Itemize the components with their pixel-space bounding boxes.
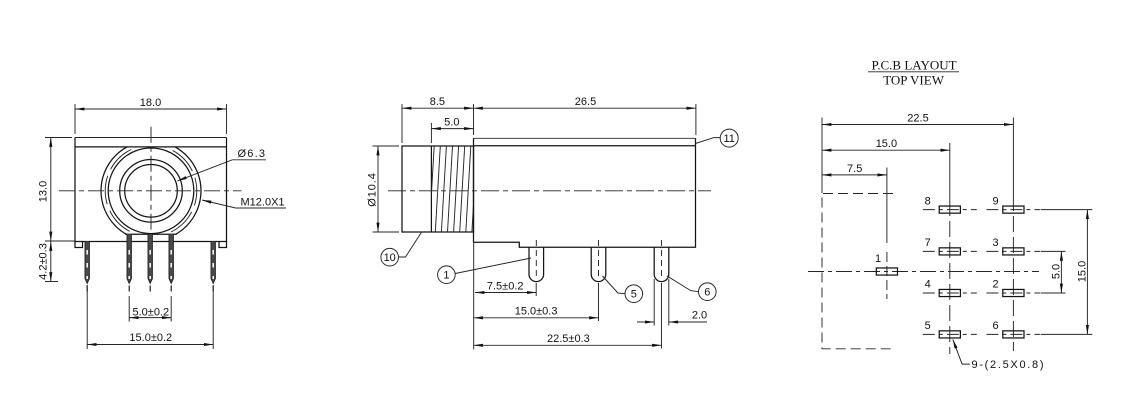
svg-text:8.5: 8.5 xyxy=(430,96,445,108)
dim 15.0±0.3 xyxy=(474,283,599,321)
centerline xyxy=(388,190,711,192)
pin F1 xyxy=(85,242,89,296)
main body xyxy=(474,137,696,139)
body top lip line xyxy=(75,146,227,148)
dim 4.2±0.3 xyxy=(37,242,58,282)
dim 18.0 xyxy=(75,97,227,134)
svg-text:26.5: 26.5 xyxy=(575,96,596,108)
svg-text:M12.0X1: M12.0X1 xyxy=(241,196,285,208)
svg-text:Ø6.3: Ø6.3 xyxy=(238,148,267,160)
body top lip line xyxy=(474,145,696,147)
label M12.0X1 xyxy=(202,196,286,208)
dim 13.0 xyxy=(37,138,75,242)
dashed body outline xyxy=(822,194,893,349)
dim 7.5 xyxy=(822,163,887,178)
pin S1 xyxy=(529,240,544,282)
svg-text:3: 3 xyxy=(993,237,999,249)
svg-text:11: 11 xyxy=(723,133,734,145)
hole circle (ø6.3) xyxy=(125,165,178,218)
balloon 1 xyxy=(438,258,531,284)
pin F4 xyxy=(169,234,173,295)
right foot xyxy=(219,242,227,248)
svg-text:2: 2 xyxy=(993,279,999,291)
pad 8 xyxy=(923,195,977,213)
thread dashed circle xyxy=(105,145,197,237)
svg-text:9-(2.5X0.8): 9-(2.5X0.8) xyxy=(972,359,1046,371)
horizontal centerline xyxy=(808,271,1039,273)
pad 5 xyxy=(923,320,977,338)
dim 22.5 xyxy=(822,113,1013,194)
svg-text:10: 10 xyxy=(384,252,396,264)
horizontal centerline xyxy=(59,190,242,192)
svg-text:7: 7 xyxy=(925,237,931,249)
svg-text:5: 5 xyxy=(925,320,931,332)
svg-text:6: 6 xyxy=(993,320,999,332)
pad 2 xyxy=(986,279,1040,297)
svg-text:13.0: 13.0 xyxy=(37,181,49,202)
left foot xyxy=(75,242,83,248)
bushing xyxy=(402,146,474,232)
dim 15.0 vertical xyxy=(1077,210,1089,335)
body outline xyxy=(75,137,227,139)
svg-text:5: 5 xyxy=(631,289,637,301)
dim 7.5±0.2 xyxy=(474,243,537,350)
pad 4 xyxy=(923,279,977,297)
label 9-(2.5X0.8) xyxy=(953,339,1045,371)
dim 26.5 xyxy=(474,96,696,135)
balloon 5 xyxy=(603,276,643,303)
dim 5.0 vertical xyxy=(1050,251,1062,293)
svg-text:5.0: 5.0 xyxy=(444,117,459,129)
pin S2 xyxy=(591,240,606,282)
pin F5 xyxy=(211,242,215,296)
svg-text:1: 1 xyxy=(875,253,881,265)
dim 22.5±0.3 xyxy=(474,283,662,349)
dim 15.0 xyxy=(822,138,950,150)
dim 2.0 xyxy=(637,279,707,326)
row extensions xyxy=(1041,209,1092,211)
svg-text:5.0: 5.0 xyxy=(1050,264,1062,279)
svg-text:4.2±0.3: 4.2±0.3 xyxy=(37,243,49,280)
svg-text:TOP VIEW: TOP VIEW xyxy=(883,73,945,88)
pin S3 xyxy=(654,240,669,282)
svg-text:4: 4 xyxy=(925,279,931,291)
pad 6 xyxy=(986,320,1040,338)
svg-text:7.5±0.2: 7.5±0.2 xyxy=(487,281,524,293)
svg-text:1: 1 xyxy=(443,270,449,282)
thread boundary line xyxy=(430,146,432,232)
circle r43 xyxy=(108,148,194,234)
svg-text:15.0: 15.0 xyxy=(1077,261,1089,282)
pad1 column line xyxy=(886,178,888,243)
dim 5.0±0.2 xyxy=(129,296,171,322)
dim 8.5 xyxy=(402,96,474,143)
dim 15.0±0.2 xyxy=(87,285,213,349)
svg-text:18.0: 18.0 xyxy=(140,97,161,109)
circle r31 xyxy=(120,160,183,223)
column centerline 1 xyxy=(949,143,951,200)
pad 3 xyxy=(986,237,1040,255)
svg-text:22.5±0.3: 22.5±0.3 xyxy=(547,333,590,345)
balloon 11 xyxy=(696,129,739,147)
svg-text:8: 8 xyxy=(925,195,931,207)
pad 9 xyxy=(986,195,1040,213)
svg-text:6: 6 xyxy=(704,287,710,299)
svg-text:15.0: 15.0 xyxy=(876,138,897,150)
vertical centerline xyxy=(150,127,152,253)
bottom chord xyxy=(125,233,177,235)
svg-text:15.0±0.2: 15.0±0.2 xyxy=(129,332,172,344)
thread hatch xyxy=(423,146,477,232)
svg-text:22.5: 22.5 xyxy=(907,113,928,125)
svg-text:9: 9 xyxy=(993,195,999,207)
pin F2 xyxy=(127,234,131,295)
balloon 6 xyxy=(667,276,716,301)
svg-text:5.0±0.2: 5.0±0.2 xyxy=(132,306,169,318)
pin F3 xyxy=(148,234,152,295)
svg-text:Ø10.4: Ø10.4 xyxy=(367,172,379,206)
dim 5.0 (thread) xyxy=(431,117,473,143)
dim ø10.4 xyxy=(367,146,400,232)
pad 7 xyxy=(923,237,977,255)
svg-text:7.5: 7.5 xyxy=(847,163,862,175)
balloon 10 xyxy=(381,232,421,266)
label ø6.3 xyxy=(178,148,267,181)
svg-text:15.0±0.3: 15.0±0.3 xyxy=(515,306,558,318)
pad 1 xyxy=(875,253,898,275)
column centerline 2 xyxy=(1012,118,1014,196)
svg-text:2.0: 2.0 xyxy=(692,309,707,321)
svg-text:P.C.B LAYOUT: P.C.B LAYOUT xyxy=(871,58,956,73)
outer circle M12 xyxy=(101,141,201,241)
